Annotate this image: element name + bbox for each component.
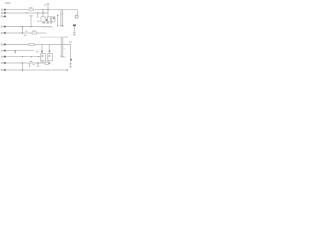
IC U1a [41,17,45,22]
text top-left title [5,2,11,3]
text near power bar [44,4,47,5]
diode D1 body [73,32,76,34]
pin circle y44.5 [1,44,3,46]
wire net C y26.5 [3,26,53,28]
wire vertical x31 [30,16,32,27]
junction (22.4,63) [22,62,23,63]
text label (68.9,41.5) [69,41,72,42]
wire LED feed x70.5 [70,45,72,64]
junction (14.8,50.7) [14,50,16,52]
wire end tick y70 [66,69,68,70]
wire twin arrow 2 top [62,10,64,26]
pin circle y56.7 [1,56,3,58]
wire net A y13 [3,12,49,14]
net label blobs (dark) at left of each wire [4,9,6,71]
wire vertical x22.3 pair1 [21,27,23,34]
text pins under U1b [46,22,48,23]
pin stub U2 a [40,61,42,63]
text near x31 top [30,15,33,16]
text above fuse [30,7,33,8]
label net C [4,26,6,28]
wire net D y33 [3,32,47,34]
resistor R4 on net H [45,62,49,64]
arrow end x57.7 [57,25,58,26]
junction (38,13) [37,12,38,13]
faint second pin row line y27.7 [42,27,54,29]
text D1 label [73,24,76,26]
wire diode D1 anode [73,26,75,32]
label net E [4,44,6,46]
arrow end twin1 top [60,25,61,26]
pin stub U2 b [42,61,44,63]
IC U1c [52,17,56,22]
connector J5 right [75,15,78,18]
text D2 label [70,59,72,61]
arrow end twin2 top [62,25,63,26]
label net A [4,12,6,14]
text label (14.2,52) under junction [15,52,16,54]
label net VCC [4,9,6,11]
junction (31.5,56.7) [31,56,32,57]
wire net I y70 [3,69,68,71]
wire vertical x48 power drop [47,4,49,17]
junction (49.3,63) [49,62,51,64]
small text marks (gray) [5,2,76,65]
rail right end arrow [65,36,68,38]
wire net H y63 [3,62,51,64]
ground D2 [69,65,71,68]
text below net D [24,35,27,36]
left connector pins (circles) [1,9,3,71]
text above U2 [41,51,43,53]
wire net E y44.5 [3,44,71,46]
text above R5 [30,61,33,62]
text above R2 [33,30,36,31]
wire vertical x22.4 pair4 [21,63,23,70]
resistor R2 on net D [32,32,37,34]
wire stub y57 [63,56,66,58]
wire net G y56.7 [3,56,41,58]
junction (38,63) [37,62,38,63]
junction (22.4,70) [22,69,23,70]
text pins under U1a [43,22,45,23]
text near (37,21) [37,21,40,22]
tick top x57.7 [57,15,59,16]
text in U1c [53,17,55,19]
junction dots [14,9,68,71]
pin circle y63 [1,62,3,64]
wire net F y50.7 [3,50,35,52]
junction (22.3,33) [22,32,23,33]
text in U3 [49,55,51,57]
arrow end twin1 bottom [61,56,62,57]
pin circle y70 [1,69,3,71]
pin circle y16.5 [1,16,3,18]
wire stub x29.6 [29,63,31,66]
junction (31,26.5) [30,26,31,27]
IC U1b [47,17,50,22]
wire vertical x49 to U4 [48,45,50,54]
wire twin arrow 1 top [60,10,62,26]
pin stub U3 a [47,61,49,62]
diode D2 body [70,63,72,65]
pin circle y50.7 [1,50,3,52]
power flag bar U [47,3,50,5]
wire label arrow x57.7 [57,15,59,26]
IC U2 [41,54,46,61]
text pins under U1c [50,22,52,23]
wire power rail VCC [5,9,78,11]
junction (22.5,56.7) [22,56,23,57]
fuse F1 on rail [29,9,33,11]
text left of U1b [46,19,47,21]
junction (48,9.7) [47,9,48,10]
text right of net F [36,51,38,52]
resistor R3 on net E [29,43,35,45]
label net H [4,62,6,64]
arrow end twin2 bottom [62,56,63,57]
pin circle y26.5 [1,26,3,28]
wire twin arrow 1 bottom [60,37,62,56]
label net B [4,16,6,18]
label net D [4,32,6,34]
IC U3 [48,54,53,61]
label net I [4,69,6,71]
junction (22.3,26.5) [22,26,23,27]
wire vertical x37.8 [37,13,39,18]
pin circle y33 [1,32,3,34]
text above net D left [25,31,28,32]
wire rail y37 [40,36,68,38]
text in U2 [42,55,44,57]
wire stub x38 [37,63,39,67]
junction (38.7,56.7) [38,56,39,57]
wire net B y16.5 [3,16,7,18]
wire right drop to connector [77,10,79,16]
junction (62.7,14) [62,14,63,15]
wire stub y48.7 [63,48,65,50]
pin circle rail [1,9,3,11]
wire vertical x42 to U3 [41,45,43,54]
junction (43,13) [42,12,43,13]
label net F [4,50,6,52]
wire twin arrow 2 bottom [62,37,64,56]
wire vertical x43 [42,10,44,17]
text above U3 [49,50,51,51]
ground D1 [73,34,76,37]
junction (43,9.7) [42,9,43,10]
pin circle y13 [1,12,3,14]
text label mid (33,64.5) [33,64,35,65]
junction (27,13) [26,12,27,13]
label net G [4,56,6,58]
junction (60.9,14) [60,14,61,15]
